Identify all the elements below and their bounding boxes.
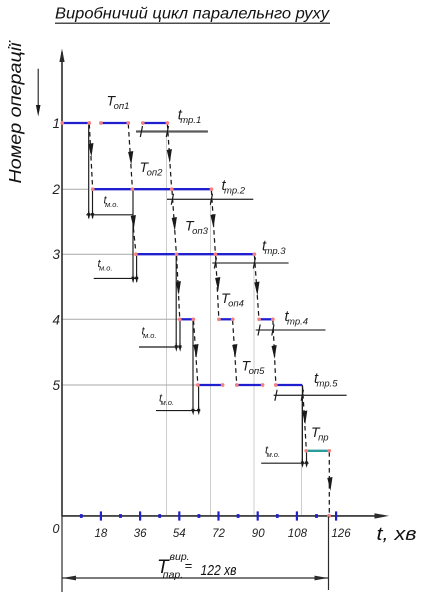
svg-text:t, хв: t, хв (377, 524, 417, 544)
svg-text:1: 1 (52, 116, 60, 131)
chain C6: op4 b1 end -> op5 start (192, 319, 194, 411)
svg-text:126: 126 (331, 528, 351, 540)
op4 bars (180, 318, 194, 320)
svg-text:2: 2 (51, 182, 60, 197)
svg-text:Номер операції: Номер операції (5, 40, 25, 183)
op2 bar (93, 188, 212, 190)
svg-text:0: 0 (53, 522, 60, 536)
svg-text:122 хв: 122 хв (201, 562, 237, 579)
lead row4 (62, 318, 179, 320)
op3 bar (136, 253, 255, 255)
t_m.o. dim row4 (139, 346, 182, 348)
svg-text:36: 36 (134, 528, 147, 540)
chain C8: op4 b3 end -> op5 seg3 start (273, 320, 276, 384)
svg-text:пар.: пар. (163, 569, 183, 581)
extension line right (328, 517, 330, 591)
y axis (61, 52, 63, 517)
t_tr.5 dim (274, 394, 347, 396)
gridline x=254 (253, 263, 255, 515)
svg-text:54: 54 (173, 528, 186, 540)
svg-text:72: 72 (212, 528, 225, 540)
chain C4: op2 end -> op3 dot3 -> op4 seg2 start (211, 190, 215, 253)
lead row2 (62, 188, 88, 190)
chain C5: op3 end -> op4 seg3 start (254, 255, 259, 318)
svg-text:4: 4 (52, 312, 60, 327)
label down-arrow (37, 69, 39, 107)
red dot on axis (327, 514, 331, 518)
lead row3 (62, 253, 133, 255)
dimension line (62, 577, 329, 579)
t_tr.2 dim (167, 198, 253, 200)
t_tr.4 dim (256, 329, 326, 331)
svg-text:Виробничий цикл паралельнго ру: Виробничий цикл паралельнго руху (55, 6, 330, 23)
svg-text:18: 18 (95, 528, 108, 540)
t_m.o. dim row2 (86, 214, 133, 216)
op1 bars (62, 122, 89, 124)
t_tr.1 dim (136, 130, 208, 132)
chain C1: op1 b1 end -> op2 start (88, 123, 90, 218)
chain C9: op5 end -> T_pr start (301, 385, 303, 466)
svg-text:5: 5 (52, 378, 60, 393)
t_m.o. dim row5 (156, 410, 200, 412)
t_m.o. dim row3 (94, 277, 139, 279)
op5 bars (198, 384, 223, 386)
gridline x=210.5 (210, 200, 212, 516)
t_tr.3 dim (212, 262, 288, 264)
axis ticks (100, 511, 102, 520)
x axis (62, 515, 378, 517)
svg-text:90: 90 (252, 528, 265, 540)
chain C7: op4 b2 end -> op5 seg2 start (233, 320, 237, 384)
gridline x=301.5 (301, 396, 303, 516)
t_m.o. dim bottom (261, 462, 308, 464)
svg-text:=: = (185, 558, 193, 573)
svg-text:108: 108 (288, 528, 308, 540)
svg-text:3: 3 (52, 247, 60, 262)
lead row5 (62, 384, 197, 386)
gridline x=166.5 (166, 132, 168, 515)
extension line left (61, 517, 63, 593)
T_pr teal bar (306, 450, 329, 452)
chain C10: T_pr end -> axis (328, 452, 330, 514)
chain C2: op1 b2 end -> op2 dot2 -> op3 start (128, 124, 132, 187)
chain C3: op1 b3 end -> op2 dot3 -> op3 dot2 -> op4 start (167, 124, 171, 188)
